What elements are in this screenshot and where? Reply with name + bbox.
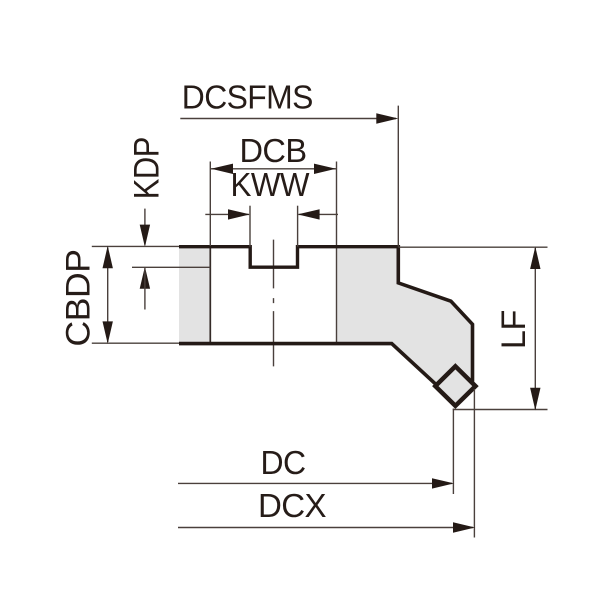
DC arrowhead: [432, 478, 454, 488]
CBDP dimension line: [107, 248, 109, 343]
svg-text:DCX: DCX: [258, 487, 327, 524]
DCB dimension line: [211, 168, 336, 170]
svg-text:DCSFMS: DCSFMS: [182, 79, 313, 116]
cutter body right gray section: [337, 247, 473, 386]
KDP dimension line upper part: [144, 209, 146, 245]
KDP reference line (notch bottom level): [132, 266, 210, 268]
LF reference line bottom: [453, 409, 548, 411]
cutter body left gray section: [179, 247, 210, 344]
KWW arrowhead left (points right): [228, 209, 250, 219]
DCX extension line (insert right corner down): [473, 389, 475, 538]
KWW dimension line right part: [299, 213, 339, 215]
svg-text:KDP: KDP: [128, 137, 167, 199]
CBDP extension line top: [92, 245, 179, 247]
svg-text:DC: DC: [261, 444, 306, 481]
LF arrowhead bottom (points down): [530, 388, 540, 410]
KWW extension line right (notch right edge up): [297, 206, 299, 247]
DCB arrowhead left: [211, 164, 233, 174]
DCB arrowhead right: [314, 164, 336, 174]
DC extension line (insert bottom corner down): [452, 409, 454, 495]
svg-text:CBDP: CBDP: [60, 250, 98, 347]
KDP dimension line lower part: [144, 268, 146, 310]
DCSFMS extension line (right edge up): [397, 106, 399, 247]
svg-text:DCB: DCB: [240, 132, 307, 169]
KWW extension line left (notch left edge up): [249, 206, 251, 247]
CBDP arrowhead bottom (points down): [103, 321, 113, 343]
center line (dash-dot): [273, 240, 275, 367]
LF reference line top: [398, 246, 547, 248]
DCB extension line left: [209, 162, 211, 247]
DCSFMS dimension line: [180, 118, 396, 120]
body bottom edge and angled edge (thick): [179, 344, 438, 387]
CBDP arrowhead top (points up): [103, 246, 113, 268]
svg-text:KWW: KWW: [231, 166, 311, 203]
body top edge with keyway notch (thick): [179, 247, 398, 268]
CBDP extension line bottom: [92, 342, 179, 344]
LF dimension line: [534, 248, 536, 409]
division line right (thin): [336, 162, 338, 344]
svg-text:LF: LF: [495, 310, 533, 349]
DC dimension line: [178, 482, 452, 484]
insert (diamond): [435, 366, 475, 406]
LF arrowhead top (points up): [530, 247, 540, 269]
KDP arrowhead lower (points up): [140, 267, 150, 289]
DCX dimension line: [178, 527, 473, 529]
DCSFMS arrowhead: [376, 113, 398, 123]
KWW dimension line left part: [205, 213, 249, 215]
division line left (thin): [209, 247, 211, 344]
KWW arrowhead right (points left): [298, 209, 320, 219]
DCX arrowhead: [453, 522, 475, 532]
KDP arrowhead upper (points down): [140, 225, 150, 247]
body right edge and angled profile (thick): [398, 245, 472, 382]
